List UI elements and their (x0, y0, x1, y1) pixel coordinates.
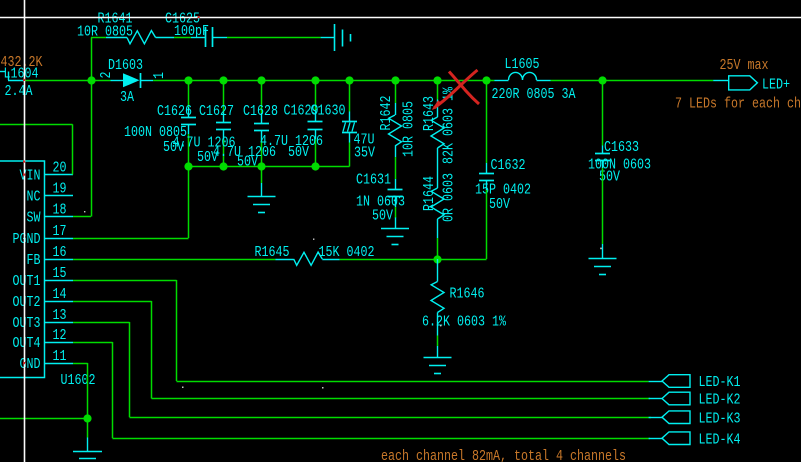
U1602 pin 15 (OUT1) (13, 265, 74, 290)
diode D1603 (108, 57, 153, 106)
svg-text:50V: 50V (237, 154, 258, 171)
svg-text:0R 0603: 0R 0603 (441, 173, 458, 222)
svg-text:C1630: C1630 (311, 103, 346, 120)
svg-text:LED-K3: LED-K3 (699, 411, 741, 428)
svg-text:50V: 50V (372, 208, 393, 225)
U1602 pin 17 (PGND) (13, 223, 74, 248)
wire R1644 to FB node (437, 238, 439, 259)
port LED-K4 (649, 432, 741, 449)
svg-text:SW: SW (27, 210, 41, 227)
note each channel 82mA total (381, 448, 626, 462)
junction bus x=437.5 (433, 76, 441, 84)
svg-text:D1603: D1603 (108, 57, 143, 74)
svg-text:19: 19 (53, 181, 67, 198)
port LED-K3 (649, 411, 741, 428)
note 25V max (720, 57, 769, 74)
wire C1632 down to FB node rail (486, 190, 488, 259)
svg-text:R1642: R1642 (378, 96, 395, 131)
wire PGND net (lower bus to pin 17) (73, 167, 189, 239)
junction bus x=349.5 (345, 76, 353, 84)
svg-text:OUT4: OUT4 (13, 335, 41, 352)
svg-text:R1643: R1643 (421, 96, 438, 131)
capacitor C1628 (213, 80, 278, 171)
wire input net to node at x=91 (25, 80, 91, 82)
wire diode anode lead (91, 80, 111, 82)
svg-text:15K 0402: 15K 0402 (319, 244, 375, 261)
junction input node (91,80) (87, 76, 95, 84)
svg-text:100pF: 100pF (174, 23, 209, 40)
svg-text:LED-K2: LED-K2 (699, 392, 741, 409)
capacitor C1632 (475, 157, 531, 213)
wire lower bus to ground (261, 167, 263, 184)
svg-text:3A: 3A (120, 89, 134, 106)
svg-text:U1602: U1602 (61, 372, 96, 389)
svg-text:14: 14 (53, 286, 67, 303)
svg-text:50V: 50V (489, 196, 510, 213)
svg-text:432.2K: 432.2K (1, 54, 43, 71)
svg-text:L1605: L1605 (505, 56, 540, 73)
svg-text:R1644: R1644 (421, 176, 438, 211)
ground under lower bus (248, 183, 276, 213)
wire R1643 to R1644 (437, 148, 439, 188)
junction GND node (87.6,418) (83, 414, 91, 422)
svg-text:LED-K4: LED-K4 (699, 432, 741, 449)
wire SW net (bus node to pin 18) (73, 80, 92, 217)
inductor L1605 (492, 56, 576, 103)
port LED+ (713, 76, 790, 94)
svg-text:6.2K 0603 1%: 6.2K 0603 1% (422, 314, 507, 331)
red X annotation over R1643 (433, 70, 480, 110)
svg-text:12: 12 (53, 327, 67, 344)
inductor L1604 (partial at left edge) (0, 66, 39, 83)
U1602 pin 13 (OUT3) (13, 307, 74, 332)
svg-text:20: 20 (53, 160, 67, 177)
svg-text:C1626: C1626 (157, 103, 192, 120)
wire OUT3 to LED-K3 (73, 322, 651, 418)
wire R1646 to ground (437, 336, 439, 347)
wire C1631 to ground (395, 207, 397, 218)
svg-text:16: 16 (53, 244, 67, 261)
svg-text:C1632: C1632 (491, 157, 526, 174)
svg-text:OUT1: OUT1 (13, 273, 41, 290)
junction FB node (437.5,259) (433, 255, 441, 263)
wire bus to C1632 (486, 80, 488, 163)
svg-text:VIN: VIN (20, 168, 41, 185)
wire bus to R1643 (437, 80, 439, 99)
wire FB pin16 to R1645 (73, 259, 275, 261)
capacitor C1631 (356, 172, 405, 225)
junction lower bus x=188.5 (184, 162, 192, 170)
ground under U1602 GND (73, 438, 102, 462)
pin 2 label of D1603 (98, 72, 115, 79)
junction bus x=486.5 (482, 76, 490, 84)
capacitor C1626 (124, 80, 196, 167)
resistor R1646 (422, 259, 507, 336)
U1602 pin 19 (NC) (27, 181, 74, 206)
wire GND pin 11 net (0, 363, 88, 438)
resistor R1643 (421, 86, 458, 164)
resistor R1641 (77, 11, 174, 44)
junction lower bus x=261.5 (257, 162, 265, 170)
capacitor C1630 (polarized) (311, 80, 376, 167)
capacitor C1629 (260, 80, 323, 167)
resistor R1645 (255, 244, 375, 265)
ground under C1633 (589, 244, 617, 275)
svg-text:1: 1 (151, 72, 168, 79)
capacitor C1627 (173, 80, 236, 167)
svg-text:25V max: 25V max (720, 57, 769, 74)
svg-text:15: 15 (53, 265, 67, 282)
wire OUT2 to LED-K2 (73, 301, 650, 399)
junction bus x=188.5 (184, 76, 192, 84)
U1602 pin 20 (VIN) (20, 160, 74, 185)
svg-text:GND: GND (20, 356, 41, 373)
svg-text:10R 0805: 10R 0805 (77, 24, 133, 41)
svg-text:2.4A: 2.4A (5, 83, 33, 100)
junction bus x=315 (311, 76, 319, 84)
svg-text:C1627: C1627 (199, 103, 234, 120)
wire C1633 to ground (602, 168, 604, 244)
capacitor C1633 (588, 139, 651, 186)
svg-text:FB: FB (27, 252, 41, 269)
svg-text:220R 0805 3A: 220R 0805 3A (492, 86, 576, 103)
junction bus x=602.5 (C1633 tap) (598, 76, 606, 84)
wire VIN net (0, 124, 73, 174)
junction bus x=395 (391, 76, 399, 84)
cursor crosshair vertical (24, 0, 26, 462)
junction lower bus x=223.5 (219, 162, 227, 170)
junction bus x=261.5 (257, 76, 265, 84)
svg-text:17: 17 (53, 223, 67, 240)
svg-text:50V: 50V (288, 144, 309, 161)
wire L1605 to LED+ port (551, 80, 714, 82)
svg-text:LED+: LED+ (762, 77, 790, 94)
U1602 pin 18 (SW) (27, 202, 74, 227)
wire OUT4 to LED-K4 (73, 342, 650, 439)
ground under C1631 (381, 218, 409, 245)
wire bus to C1633 (602, 80, 604, 146)
svg-text:each channel 82mA, total 4 cha: each channel 82mA, total 4 channels (381, 448, 626, 462)
capacitor C1625 (165, 11, 227, 48)
label 432.2K (orange note) (1, 54, 43, 71)
svg-text:18: 18 (53, 202, 67, 219)
U1602 pin 14 (OUT2) (13, 286, 74, 311)
svg-text:LED-K1: LED-K1 (699, 374, 741, 391)
wire C1625 to ground (227, 37, 321, 39)
svg-text:35V: 35V (354, 145, 375, 162)
wire FB node to C1632 bottom (438, 259, 487, 261)
wire R1645 to FB node (340, 259, 438, 261)
svg-text:OUT3: OUT3 (13, 315, 41, 332)
wire R1641 branch riser (91, 38, 106, 81)
svg-text:R1645: R1645 (255, 244, 290, 261)
red crossing artifacts (23, 16, 200, 364)
svg-text:NC: NC (27, 189, 41, 206)
wire main bus (diode cathode to L1605) (153, 80, 494, 82)
port LED-K2 (649, 392, 741, 409)
svg-text:C1631: C1631 (356, 172, 391, 189)
svg-text:OUT2: OUT2 (13, 294, 41, 311)
ground (sideways) for C1625 branch (321, 24, 351, 51)
svg-text:13: 13 (53, 307, 67, 324)
wire bus to R1642 (395, 80, 397, 103)
svg-text:C1633: C1633 (604, 139, 639, 156)
junction lower bus x=315 (311, 162, 319, 170)
svg-text:11: 11 (53, 348, 67, 365)
wire R1641 to C1625 (174, 37, 191, 39)
cursor crosshair horizontal (0, 17, 801, 19)
svg-text:10R 0805: 10R 0805 (401, 101, 418, 157)
port LED-K1 (649, 374, 741, 391)
resistor R1644 (421, 173, 458, 238)
label 2.4A (5, 83, 33, 100)
wire lower bus (cap bottoms) (189, 166, 350, 168)
svg-text:R1646: R1646 (450, 286, 485, 303)
junction bus x=223.5 (219, 76, 227, 84)
wire OUT1 to LED-K1 (73, 280, 649, 382)
U1602 pin 11 (GND) (20, 348, 74, 373)
U1602 pin 12 (OUT4) (13, 327, 74, 352)
svg-text:C1628: C1628 (243, 103, 278, 120)
svg-text:PGND: PGND (13, 231, 41, 248)
ground under R1646 (424, 346, 452, 374)
svg-text:7 LEDs for each chan: 7 LEDs for each chan (675, 96, 801, 113)
U1602 pin 16 (FB) (27, 244, 74, 269)
note 7 LEDs for each channel (675, 96, 801, 113)
resistor R1642 (378, 96, 418, 158)
svg-text:2: 2 (98, 72, 115, 79)
op-amp/IC U1602 body (0, 161, 96, 389)
pin 1 label of D1603 (151, 72, 168, 79)
wire R1642 to C1631 (395, 157, 397, 179)
